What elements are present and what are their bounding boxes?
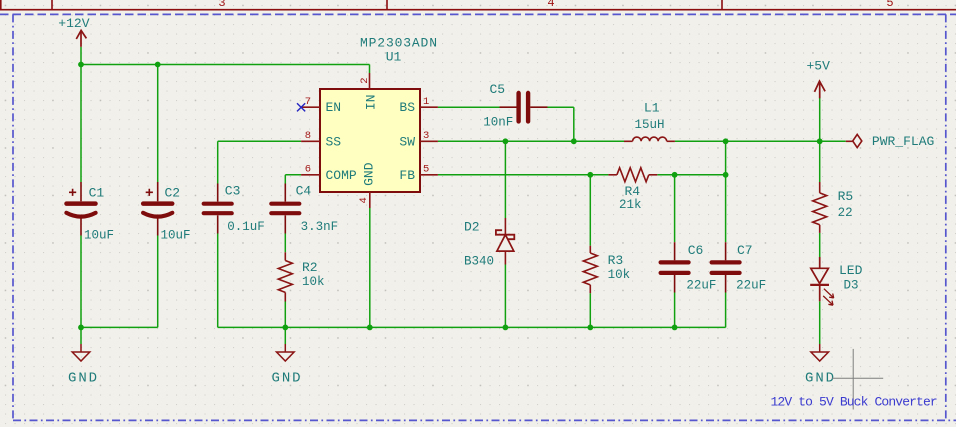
svg-text:10k: 10k — [608, 268, 631, 282]
svg-text:15uH: 15uH — [635, 118, 665, 132]
svg-text:21k: 21k — [619, 198, 642, 212]
svg-text:10uF: 10uF — [84, 229, 114, 243]
wire SS to C3 — [218, 140, 301, 142]
svg-text:GND: GND — [272, 371, 303, 387]
svg-text:10k: 10k — [302, 275, 325, 289]
svg-text:MP2303ADN: MP2303ADN — [360, 36, 438, 51]
svg-text:7: 7 — [305, 96, 311, 108]
svg-text:0.1uF: 0.1uF — [227, 220, 265, 234]
power +12V — [76, 30, 86, 46]
svg-text:8: 8 — [305, 130, 311, 142]
junction R3 / ground bus — [587, 325, 593, 331]
wire R4 right to C6/C7 — [657, 174, 725, 176]
junction C1 / +12V rail — [78, 62, 84, 68]
wires green — [81, 47, 846, 344]
U1 pin 1 BS — [420, 106, 438, 108]
svg-text:BS: BS — [399, 100, 415, 115]
PWR_FLAG — [846, 134, 862, 147]
svg-text:2: 2 — [359, 77, 371, 83]
junction C6 / FB divider net — [672, 172, 678, 178]
junction C1 / ground bus — [78, 325, 84, 331]
wire C5 right down to SW — [548, 106, 574, 108]
U1 pin 7 EN — [301, 106, 320, 108]
capacitor C7 — [712, 242, 740, 292]
svg-text:C7: C7 — [737, 243, 753, 258]
svg-text:3.3nF: 3.3nF — [301, 220, 339, 234]
wire IC GND pin column — [369, 208, 371, 327]
power +5V — [815, 81, 826, 98]
svg-text:5: 5 — [423, 164, 429, 176]
svg-text:B340: B340 — [464, 255, 494, 269]
U1 pin 3 SW — [420, 140, 438, 142]
svg-text:5: 5 — [886, 0, 893, 10]
resistor R4 — [608, 168, 657, 182]
junction U1 GND pin / ground bus — [367, 325, 373, 331]
LED D3 — [810, 257, 834, 305]
svg-text:C4: C4 — [296, 184, 312, 199]
junction C7 / output net — [723, 138, 729, 144]
ground symbol 3 — [811, 344, 829, 361]
svg-text:22uF: 22uF — [736, 279, 766, 293]
svg-text:R2: R2 — [302, 260, 318, 275]
U1 pin 6 COMP — [301, 174, 320, 176]
wire +5V column — [819, 98, 821, 141]
svg-text:SW: SW — [399, 134, 415, 149]
svg-text:SS: SS — [326, 134, 342, 149]
svg-text:D3: D3 — [844, 279, 859, 293]
svg-text:6: 6 — [305, 164, 311, 176]
ground symbol 1 — [72, 344, 90, 361]
wire SW line — [438, 140, 624, 142]
U1 pin 8 SS — [301, 140, 320, 142]
wire LED to GND — [819, 301, 821, 344]
inductor L1 — [624, 137, 675, 141]
svg-text:C3: C3 — [225, 184, 241, 199]
svg-text:C6: C6 — [688, 243, 704, 258]
svg-text:R4: R4 — [625, 184, 641, 199]
svg-text:D2: D2 — [464, 220, 480, 235]
op IC U1 body — [320, 89, 420, 192]
svg-text:C5: C5 — [490, 82, 506, 97]
svg-text:3: 3 — [218, 0, 225, 10]
diode D2 schottky — [496, 218, 514, 265]
resistor R5 — [813, 182, 827, 233]
capacitor C1 — [66, 182, 95, 236]
svg-text:EN: EN — [326, 100, 342, 115]
wire C4 to R2 — [284, 234, 286, 253]
junction C5 / SW net — [571, 138, 577, 144]
wire COMP to C4 — [285, 174, 301, 176]
wire C2 column — [157, 65, 159, 183]
wire C1 column — [80, 65, 82, 183]
svg-text:4: 4 — [547, 0, 554, 10]
wire gnd stub R2 — [284, 327, 286, 344]
wire bus main — [218, 326, 726, 328]
U1 pin 2 IN — [369, 73, 371, 89]
svg-text:C1: C1 — [89, 186, 105, 201]
svg-text:22: 22 — [838, 206, 853, 220]
svg-text:22uF: 22uF — [686, 279, 716, 293]
svg-text:+5V: +5V — [807, 59, 831, 74]
junction C7 / FB divider net — [723, 172, 729, 178]
resistor R3 — [583, 246, 597, 294]
wire FB line — [438, 174, 609, 176]
no-connect X on EN — [297, 103, 305, 111]
wire +12V rail — [80, 47, 82, 65]
capacitor C4 — [271, 184, 299, 234]
svg-text:R3: R3 — [608, 253, 624, 268]
wire C6 column — [674, 175, 676, 242]
svg-text:PWR_FLAG: PWR_FLAG — [872, 134, 934, 149]
svg-text:LED: LED — [839, 263, 863, 278]
wire D2 column — [504, 141, 506, 218]
U1 pin 5 FB — [420, 174, 438, 176]
svg-text:U1: U1 — [386, 50, 402, 65]
ground symbol 2 — [277, 344, 295, 361]
svg-text:+12V: +12V — [58, 16, 89, 31]
junction R3 / FB net — [587, 172, 593, 178]
wire C3 bottom — [217, 234, 219, 328]
capacitor C5 — [500, 93, 548, 121]
capacitor C2 — [143, 182, 172, 236]
svg-text:10nF: 10nF — [483, 116, 513, 130]
svg-text:FB: FB — [399, 168, 415, 183]
svg-text:GND: GND — [805, 371, 836, 387]
wire gnd stub C1 — [80, 327, 82, 344]
svg-text:3: 3 — [423, 130, 429, 142]
resistor R2 — [278, 252, 292, 301]
crosshair cursor — [832, 349, 883, 410]
capacitor C6 — [661, 242, 689, 292]
svg-text:R5: R5 — [838, 189, 854, 204]
wire BS to C5 — [438, 106, 500, 108]
wire L1 out to PWR_FLAG — [675, 140, 846, 142]
svg-text:4: 4 — [358, 197, 370, 203]
junction C2 / +12V rail — [155, 62, 161, 68]
U1 pin 4 GND — [369, 192, 371, 208]
wire R5 to LED — [819, 233, 821, 257]
svg-text:GND: GND — [361, 162, 376, 186]
svg-text:L1: L1 — [644, 100, 660, 115]
svg-text:C2: C2 — [165, 186, 181, 201]
capacitor C3 — [204, 184, 232, 234]
wire R3 column — [589, 175, 591, 246]
wire C7 column — [725, 141, 727, 242]
junction C6 / ground bus — [672, 325, 678, 331]
sheet frame top line — [0, 0, 956, 10]
junction D2 / SW net — [503, 138, 509, 144]
svg-text:1: 1 — [423, 96, 429, 108]
junction R2 / ground bus — [282, 325, 288, 331]
svg-text:GND: GND — [68, 371, 99, 387]
svg-text:COMP: COMP — [326, 168, 357, 183]
junction +5V / output net — [817, 138, 823, 144]
svg-text:10uF: 10uF — [161, 229, 191, 243]
junction D2 / ground bus — [503, 325, 509, 331]
svg-text:12V to 5V Buck Converter: 12V to 5V Buck Converter — [771, 395, 937, 410]
wire R2 bottom — [284, 302, 286, 328]
wire bus left segment — [81, 326, 158, 328]
svg-text:IN: IN — [363, 95, 378, 111]
